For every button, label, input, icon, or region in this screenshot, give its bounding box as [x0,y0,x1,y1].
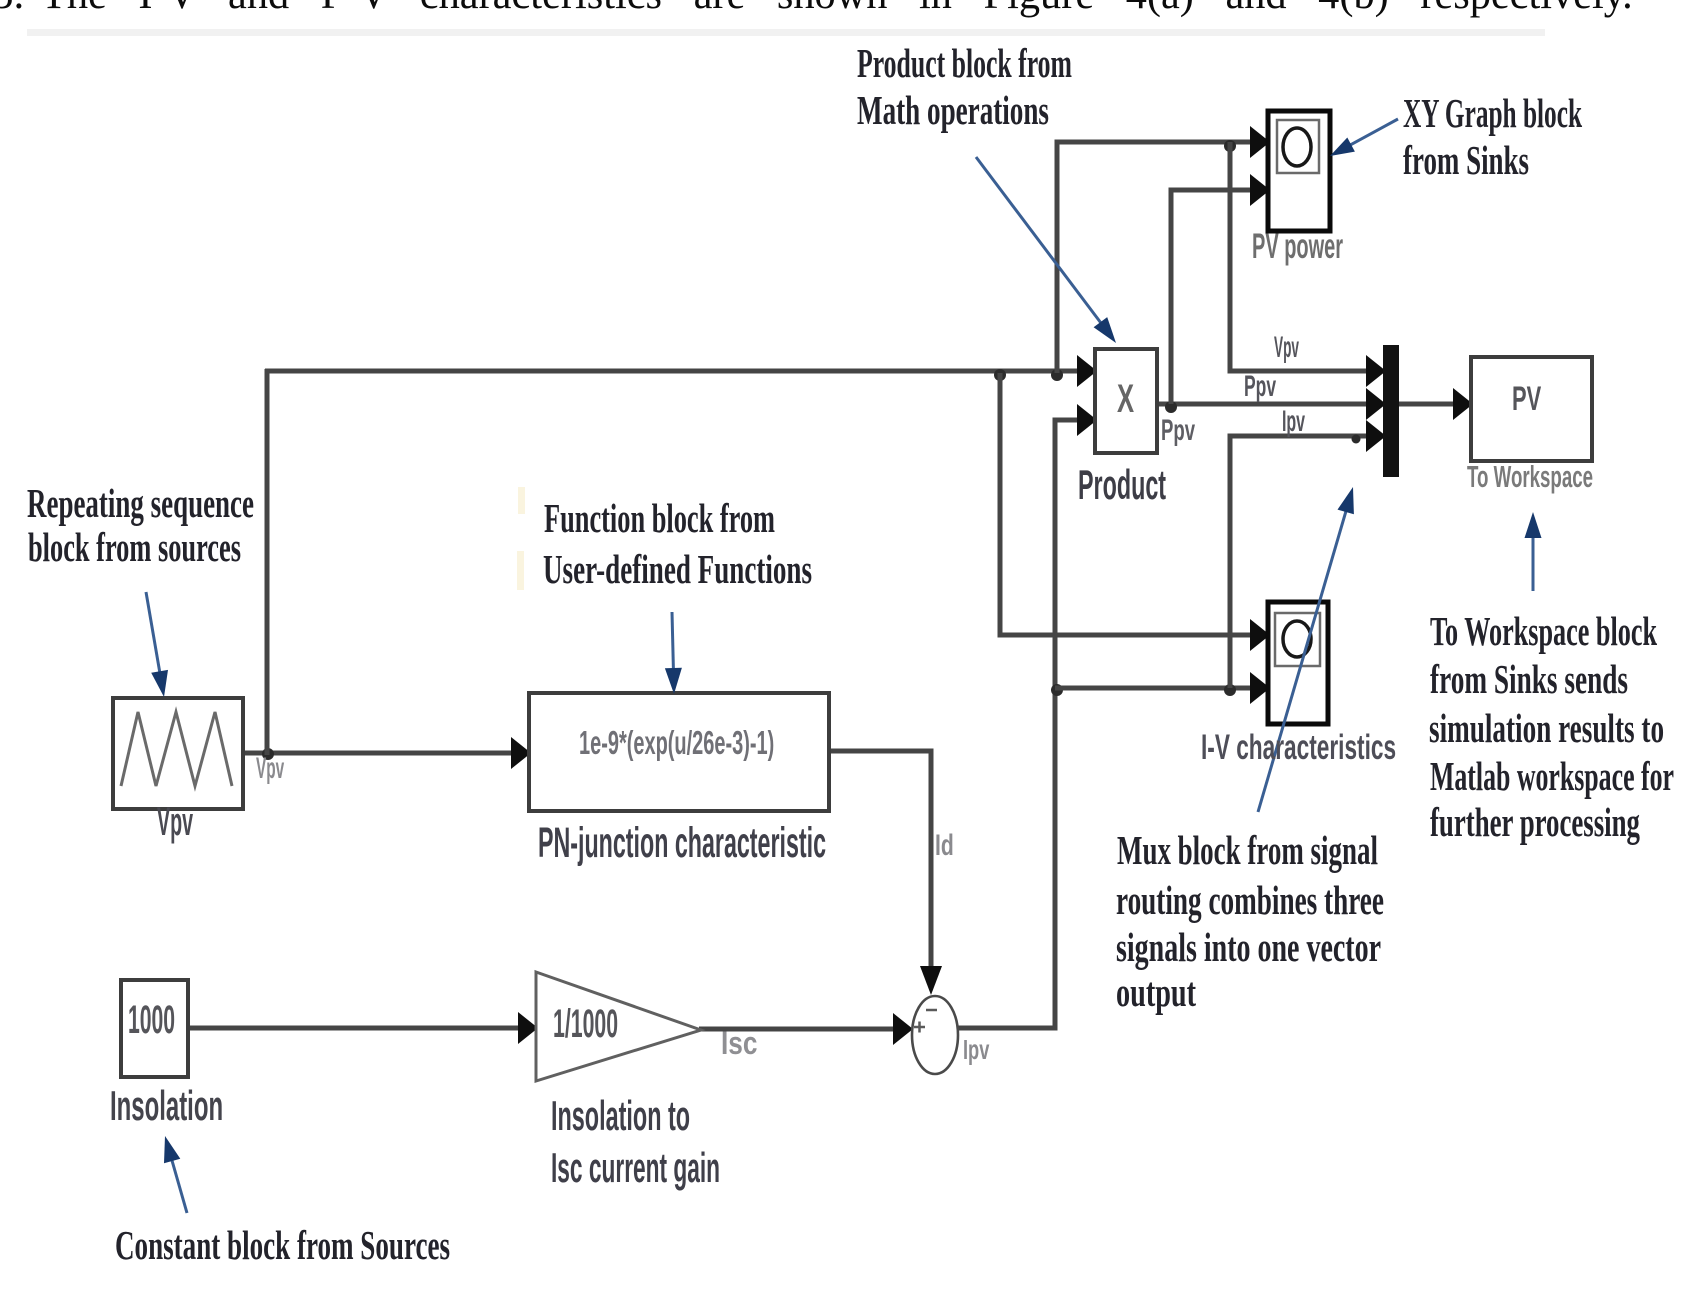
label: annotation "block from sources" [28,527,241,568]
block: PV power XY Graph scope [1268,111,1330,231]
node: junction (1000,375) on Vpv bus [994,369,1006,381]
annotation arrow: product text to block [976,157,1104,326]
wire: Vpv branch vertical x=267 up to bus [265,369,270,755]
wire: Function output then Id drop to Sum [829,751,931,966]
block: Sum ellipse [912,996,958,1074]
label: block label "Vpv" [157,802,193,842]
arrowhead: sum left input [893,1013,913,1045]
label: annotation "Constant block from Sources" [115,1225,450,1266]
label: port/value "X" [1117,379,1134,419]
label: annotation "Matlab workspace for" [1430,756,1674,797]
label: block label "PN-junction characteristic" [538,822,826,865]
node: junction (1230,142) on PV power input 1 wire [1224,140,1236,152]
wire: vertical x=1230 up to Mux input 3 [1230,436,1367,688]
label: block label "I-V characteristics" [1201,730,1396,765]
wire: vertical x=1057 up then to PV power scope input 1 [1057,142,1251,373]
label: port/value "Ppv" [1161,416,1195,446]
label: annotation "User-defined Functions" [543,549,812,590]
label: annotation "from Sinks sends" [1430,659,1628,700]
annotation arrow: XY graph text to scope [1347,119,1398,147]
arrowhead: mux input 3 [1366,420,1386,452]
arrowhead: product input 2 [1077,404,1097,436]
label: page caption sentence (clipped at top) [41,0,1633,16]
block: Product [1095,349,1157,453]
block: Mux bar [1383,345,1399,477]
label: block label "To Workspace" [1467,461,1593,492]
block: Gain triangle (1/1000) [536,972,701,1081]
wire: Gain output Isc to Sum input [699,1027,895,1032]
node: junction (1055,690) on Ipv riser [1051,684,1063,696]
icon: triangle wave [121,712,232,786]
annotation arrow: mux text to mux [1258,507,1347,812]
faint figure top edge [27,29,1545,36]
arrowhead: I-V scope input 2 [1250,672,1270,704]
label: port/value "PV" [1512,382,1541,416]
label: annotation "Math operations" [857,90,1049,131]
node: junction (1057,375) on Vpv bus [1051,369,1063,381]
label: annotation "To Workspace block" [1430,611,1657,652]
label: annotation "Mux block from signal" [1117,830,1378,871]
label: page caption number [0,0,24,16]
wire: Product output Ppv to Mux input 2 [1157,402,1367,407]
label: block label "Insolation to" [551,1095,690,1137]
arrowhead: PV power scope input 2 [1250,174,1270,206]
arrowhead: product input 1 [1077,355,1097,387]
label: annotation "simulation results to" [1429,708,1664,749]
wire: long Vpv bus y=371 to Product input 1 [265,369,1078,374]
wire: vertical x=1171 up to PV power scope input 2 [1171,190,1251,404]
wire: vertical x=1230 down to Mux input 1 [1230,142,1367,371]
arrowhead: sum top input (Id) [920,966,942,995]
label: port/value "Id" [935,831,954,861]
node: junction (1171,404) on Ppv wire [1165,401,1177,413]
wire: vertical x=1000 down then to I-V scope input 1 [1000,373,1251,635]
node: junction (1230,690) on I-V input 2 wire [1224,684,1236,696]
label: annotation "Repeating sequence" [27,483,254,524]
block: Repeating sequence source (Vpv) [113,698,243,809]
label: block label "Isc current gain" [551,1147,720,1189]
label: port/value "Ipv" [1282,407,1305,437]
label: annotation "Product block from" [857,43,1072,84]
label: annotation "routing combines three" [1116,880,1384,921]
sign: plus at sum left [914,1022,925,1033]
faint yellow marks [518,487,525,514]
wire: Mux output to To-Workspace input [1398,402,1454,407]
label: block label "PV power" [1252,229,1343,264]
arrowhead: gain input [518,1012,538,1044]
label: annotation "XY Graph block" [1403,93,1582,134]
wire: Vpv source output to function block input [243,751,512,756]
label: port/value "1000" [128,1000,175,1040]
arrowhead: PV power scope input 1 [1250,126,1270,158]
label: port/value "Ipv" [963,1036,989,1064]
label: annotation "Function block from" [544,498,775,539]
annotation arrow: constant text up to label [171,1156,187,1213]
label: function expression [579,726,774,759]
label: port/value "1/1000" [553,1004,618,1044]
label: block label "Insolation" [110,1085,223,1127]
block: Function block (PN-junction) [529,693,829,811]
arrowhead: I-V scope input 1 [1250,619,1270,651]
arrowhead: mux input 2 [1366,388,1386,420]
label: port/value "Ppv" [1244,372,1276,402]
block: Constant (1000) [121,980,188,1077]
label: block label "Product" [1078,464,1166,506]
block: I-V characteristics XY Graph scope [1268,602,1328,724]
label: annotation "further processing" [1430,802,1640,843]
annotation arrow: repeating sequence text to block [146,592,161,677]
label: annotation "output" [1116,972,1196,1013]
block: PV To Workspace [1471,357,1592,461]
node: small dot on Mux input 3 wire [1352,435,1361,444]
annotation arrow: to-workspace text up to PV block [1532,533,1535,591]
label: annotation "from Sinks" [1403,140,1529,181]
sign: minus at sum top [926,1009,937,1012]
node: junction Vpv branch (267,753) [262,748,274,760]
wire: Ipv riser from Sum output up to Product input 2 [957,420,1078,1028]
wire: Constant output to Gain input [188,1026,519,1031]
arrowhead: function block input [511,737,531,769]
label: port/value "Vpv" [256,754,284,784]
annotation arrow: function text to block [672,612,674,673]
arrowhead: mux input 1 [1366,355,1386,387]
label: annotation "signals into one vector" [1116,927,1381,968]
label: port/value "Vpv" [1274,333,1299,363]
arrowhead: To Workspace input [1453,388,1473,420]
label: port/value "Isc" [721,1027,757,1059]
wire: Ipv branch y=688 to I-V scope input 2 [1055,686,1251,691]
